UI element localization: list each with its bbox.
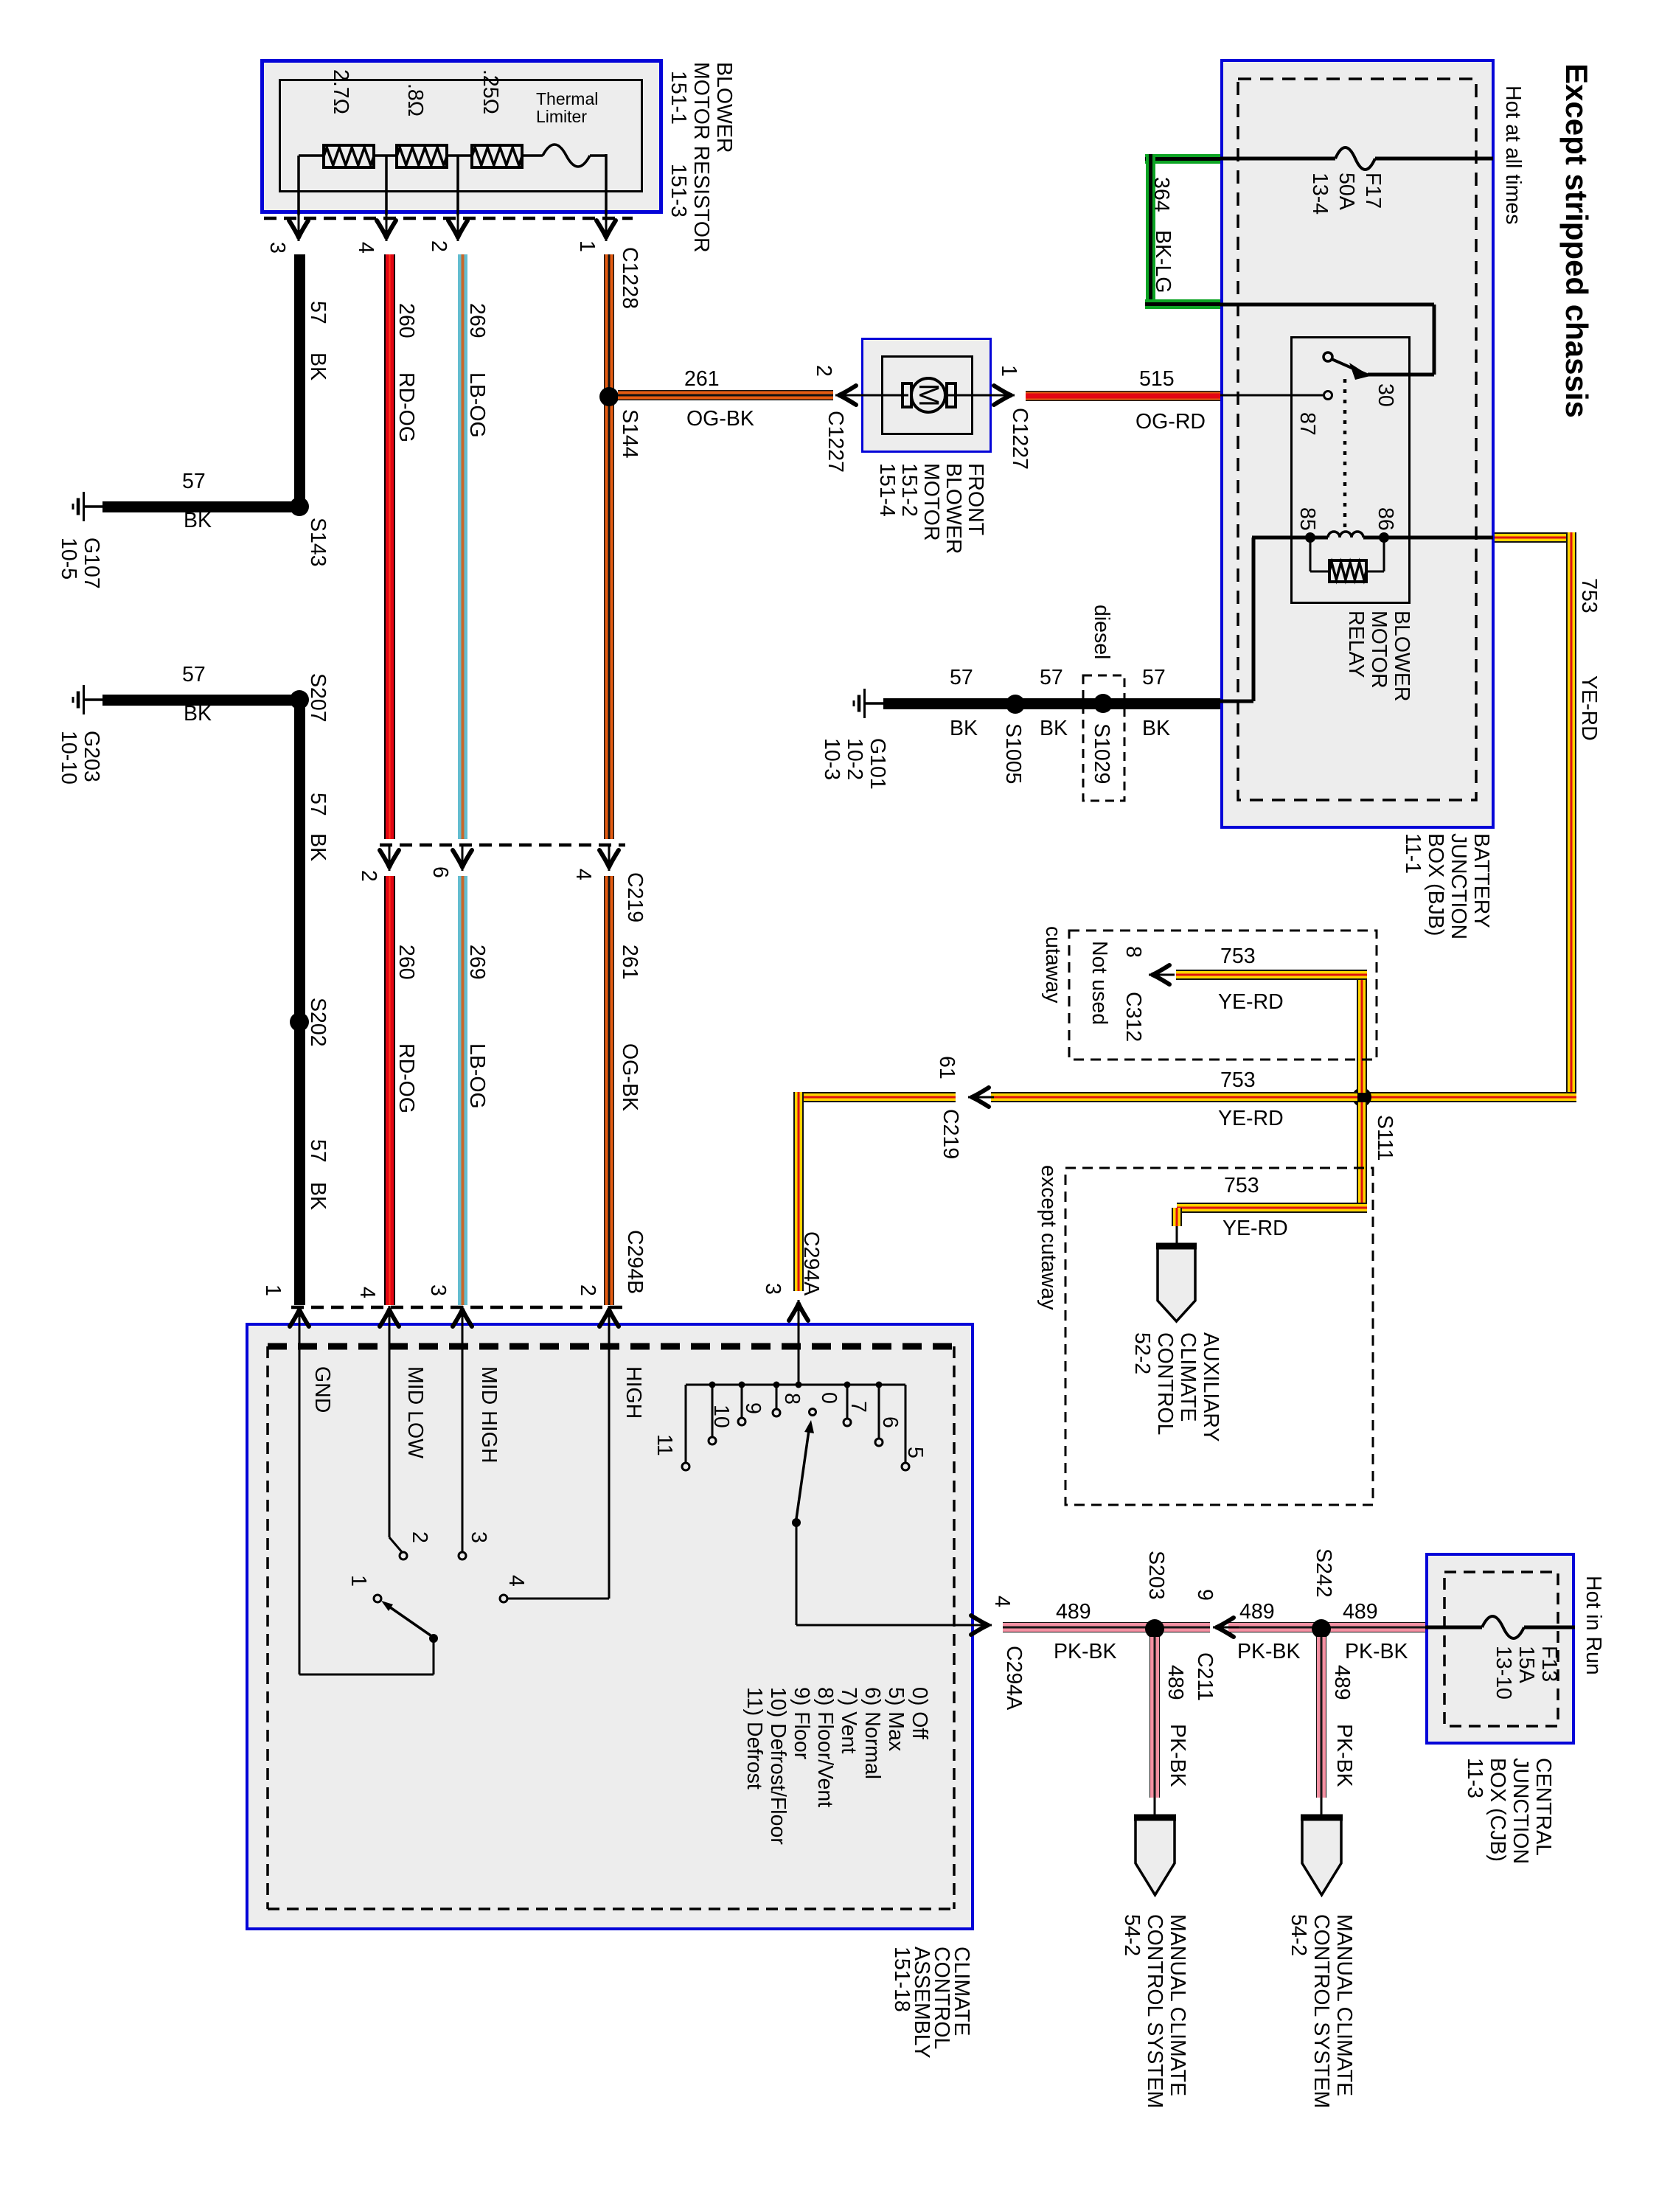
label diesel (1090, 605, 1113, 659)
pin 9 (1193, 1589, 1216, 1601)
label C294B (623, 1230, 646, 1294)
label A (1307, 1842, 1330, 1856)
fuse F17 50A (1335, 147, 1375, 170)
label 4 (504, 1575, 527, 1587)
label MID HIGH (477, 1366, 500, 1463)
label RD-OG (394, 1043, 417, 1113)
label 753 (1220, 1070, 1256, 1092)
pin 1 (997, 365, 1020, 377)
contact 6 (875, 1439, 883, 1446)
label GND (310, 1366, 333, 1413)
label 11 (653, 1434, 675, 1456)
wire (374, 154, 397, 157)
label 2 (408, 1531, 431, 1543)
contact 8 (773, 1409, 780, 1416)
label blower motor resistor (689, 62, 735, 253)
label G101 10-2 10-3 (820, 738, 888, 790)
label 364 (1150, 177, 1172, 212)
BJB inner dashed border (1238, 79, 1476, 800)
pin 3 (426, 1284, 449, 1296)
relay coil (1328, 532, 1363, 538)
label 57 (306, 793, 329, 816)
label BK (1040, 718, 1068, 740)
C1228 pin1 arrow (597, 215, 616, 241)
wire (102, 695, 294, 706)
wire (793, 1092, 804, 1291)
ground G203 (73, 685, 102, 714)
S1029 dashed box (1083, 675, 1124, 801)
switch stub (685, 1385, 687, 1463)
label manual climate control B (1120, 1914, 1189, 2108)
switch stub (846, 1385, 849, 1419)
label 7 (846, 1401, 869, 1413)
wire (433, 1641, 435, 1674)
wire (1321, 1798, 1323, 1816)
label BK (1142, 718, 1170, 740)
wire (1566, 532, 1576, 1097)
wire tap pin4 (385, 156, 388, 215)
label YE-RD (1218, 992, 1284, 1014)
label S143 (306, 518, 329, 567)
label PK-BK (1345, 1641, 1408, 1663)
wire (1368, 373, 1434, 377)
pin 3 (265, 242, 288, 254)
label 515 (1139, 369, 1175, 391)
label 489 (1330, 1665, 1353, 1700)
wire (804, 1092, 956, 1102)
climate control assembly box (246, 1323, 974, 1930)
label M (916, 383, 941, 407)
label OG-BK (686, 408, 754, 431)
contact 1 (374, 1595, 381, 1602)
switch stub (905, 1385, 907, 1463)
wire (1177, 1203, 1367, 1213)
wire tap pin1 (605, 154, 608, 215)
wire from fuse F13 (1524, 1626, 1575, 1630)
label S207 (306, 673, 329, 723)
pin 2 (427, 240, 450, 252)
wire (1176, 1226, 1178, 1246)
wire (447, 154, 472, 157)
C294A pin4 arrow (966, 1615, 992, 1635)
HIGH trace (608, 1326, 611, 1599)
label PK-BK (1237, 1641, 1301, 1663)
splice S202 (290, 1012, 309, 1032)
label S1029 (1090, 723, 1113, 784)
label PK-BK (1332, 1724, 1355, 1787)
wire (1228, 1622, 1425, 1632)
wire (1310, 538, 1312, 571)
label 57 (1142, 667, 1166, 689)
label central junction box (1463, 1758, 1554, 1864)
splice S111 (1352, 1088, 1371, 1107)
splice S242 (1312, 1619, 1331, 1638)
wire (1433, 305, 1436, 375)
thermal limiter element (543, 145, 590, 167)
C1227 pin1 arrow (989, 386, 1015, 405)
legend 9) Floor (790, 1687, 813, 1759)
wire (861, 394, 908, 397)
C294B pin4 arrow (380, 1306, 399, 1332)
label BK (306, 833, 329, 861)
contact 3 (459, 1552, 466, 1559)
splice S207 (290, 690, 309, 709)
legend 6) Normal (860, 1687, 883, 1779)
splice S143 (290, 497, 309, 516)
wire (1366, 571, 1384, 573)
wire (1026, 391, 1220, 401)
wire to relay 30 (1220, 303, 1434, 307)
legend 10) Defrost/Floor (766, 1687, 789, 1845)
label RD-OG (394, 372, 417, 442)
switch stub (776, 1385, 778, 1409)
label cutaway (1041, 926, 1064, 1004)
label 489 (1343, 1601, 1378, 1624)
C219 pin61 arrow (968, 1088, 994, 1107)
C219 pin2 arrow (380, 845, 399, 871)
contact 5 (902, 1463, 909, 1470)
label hot at all times (1501, 86, 1524, 224)
motor M1 symbol (902, 378, 956, 412)
wire (521, 154, 543, 157)
C294A pin3 arrow (789, 1300, 808, 1326)
label G203 10-10 (57, 731, 102, 785)
switch bus (686, 1384, 905, 1386)
ground G107 (73, 492, 102, 521)
C1228 pin3 arrow (289, 215, 308, 241)
connector B (1134, 1816, 1176, 1895)
label BK (306, 352, 329, 380)
label blower motor relay (1344, 611, 1413, 702)
label S242 (1312, 1548, 1335, 1598)
label F17 50A 13-4 (1307, 173, 1386, 215)
wire (1357, 975, 1367, 1093)
wire (1145, 154, 1220, 164)
switch blade (385, 1604, 431, 1635)
pin 4 (354, 242, 377, 254)
wire (1495, 532, 1571, 543)
switch post 2 (792, 1518, 801, 1527)
wire (1154, 1798, 1156, 1816)
C219 pin6 arrow (453, 845, 472, 871)
relay blade (1332, 359, 1368, 375)
C294B pin1 arrow (290, 1306, 309, 1332)
wire (604, 876, 614, 1305)
wire from fuse F17 (1375, 157, 1493, 161)
contact 10 (709, 1437, 716, 1444)
pin 4 (990, 1596, 1013, 1607)
blower motor resistor box (260, 59, 663, 214)
wire (590, 154, 606, 157)
wire (1357, 1102, 1367, 1211)
climate inner dashed top (268, 1343, 954, 1350)
wire (294, 254, 305, 507)
label 57 (306, 301, 329, 324)
wire to fuse F17 (1220, 157, 1335, 161)
label HIGH (622, 1366, 644, 1419)
contact 2 (400, 1552, 407, 1559)
connector A (1301, 1816, 1343, 1895)
wire (1310, 571, 1329, 573)
climate inner dashed left (266, 1346, 269, 1909)
pin 2 (357, 870, 380, 882)
blade arrowhead (381, 1601, 393, 1611)
GND trace (299, 1326, 301, 1674)
label 57 (1040, 667, 1063, 689)
wire (948, 394, 992, 397)
label BK-LG (1151, 230, 1174, 293)
C1227 pin2 arrow (835, 386, 861, 405)
pin 4 (355, 1287, 378, 1298)
label C312 (1121, 992, 1144, 1042)
relay pivot (1324, 352, 1332, 361)
splice S144 (599, 387, 619, 406)
label 489 (1164, 1665, 1186, 1700)
blade arrowhead (804, 1420, 814, 1433)
C1228 pin2 arrow (448, 215, 467, 241)
switch stub (878, 1385, 880, 1439)
label PK-BK (1166, 1724, 1189, 1787)
wire tap pin3 (297, 156, 300, 215)
wire into climate box (798, 1326, 800, 1385)
splice S203 (1145, 1619, 1164, 1638)
wire 85 out (1220, 700, 1253, 703)
label 30 (1374, 383, 1397, 407)
label 260 (394, 945, 417, 980)
wire (384, 254, 395, 839)
pin 3 (761, 1283, 784, 1295)
label C219 (939, 1109, 961, 1159)
resistor .8ohm (397, 145, 447, 167)
wire (1367, 1092, 1576, 1102)
label thermal limiter (536, 90, 598, 125)
label front blower motor (876, 463, 987, 554)
C294B pin2 arrow (599, 1306, 619, 1332)
fan switch blade (796, 1430, 809, 1519)
relay pin 87 (1324, 392, 1332, 400)
wire (294, 700, 305, 1305)
label 5 (903, 1447, 926, 1458)
wire (458, 254, 467, 839)
label MID LOW (403, 1366, 426, 1458)
contact 4 (500, 1595, 507, 1602)
label hot in run (1582, 1576, 1604, 1675)
label 151-1 (667, 71, 689, 125)
pin 6 (428, 866, 451, 878)
splice S1005 (1006, 695, 1025, 714)
label 57 (950, 667, 973, 689)
label G107 10-5 (57, 538, 102, 589)
label YE-RD (1222, 1218, 1288, 1240)
label 57 (182, 471, 206, 493)
fuse F13 15A (1482, 1616, 1524, 1638)
climate inner dashed bottom (268, 1907, 954, 1910)
label 86 (1374, 507, 1397, 531)
label except cutaway (1037, 1165, 1060, 1310)
label 261 (618, 945, 641, 980)
switch post (429, 1634, 438, 1643)
label 6 (878, 1416, 901, 1428)
pin 1 (575, 240, 598, 252)
pin 2 (576, 1284, 599, 1296)
label S1005 (1001, 723, 1024, 784)
wire (1146, 154, 1155, 308)
wire (618, 390, 833, 400)
wire resistor row (299, 154, 324, 157)
label manual climate control A (1287, 1914, 1355, 2108)
front blower motor box (861, 338, 992, 453)
legend 8) Floor/Vent (813, 1687, 836, 1807)
label LB-OG (465, 372, 488, 438)
relay resistor (1329, 560, 1366, 582)
label C294A (1002, 1646, 1025, 1710)
climate inner dashed right (953, 1346, 956, 1909)
wire 86 to YE-RD (1363, 536, 1493, 540)
connector C294B dashed line (291, 1306, 627, 1310)
contact 0 (810, 1409, 816, 1416)
contact 9 (738, 1418, 745, 1425)
resistor inner box (279, 79, 643, 192)
label B (1141, 1842, 1164, 1856)
battery junction box (1220, 59, 1495, 829)
C211 pin9 arrow (1213, 1618, 1239, 1637)
wire (604, 254, 614, 839)
label 261 (684, 369, 720, 391)
label S144 (618, 409, 641, 459)
label 269 (465, 945, 488, 980)
label S202 (306, 998, 329, 1047)
label 57 (182, 664, 206, 686)
resistor .25ohm (472, 145, 522, 167)
label OG-BK (618, 1043, 641, 1111)
wire (1150, 1637, 1160, 1798)
contact 11 (682, 1463, 689, 1470)
connector C1228 dashed line (264, 217, 633, 220)
relay 85 junction (1305, 532, 1315, 543)
wire (458, 876, 467, 1305)
MID LOW trace (389, 1326, 391, 1537)
wire to fuse F13 (1425, 1626, 1482, 1630)
C294B pin3 arrow (453, 1306, 472, 1332)
CJB inner dashed border (1444, 1572, 1558, 1726)
label 85 (1295, 507, 1318, 531)
label F13 15A 13-10 (1492, 1646, 1560, 1700)
label C1227 (824, 411, 846, 473)
label BK (950, 718, 978, 740)
label battery junction box (1401, 833, 1492, 939)
auxiliary climate control connector (1156, 1245, 1197, 1321)
wire (1383, 538, 1385, 571)
label 753 (1224, 1175, 1259, 1197)
label 0 (817, 1392, 840, 1404)
label C219 (623, 872, 646, 922)
label BK (184, 703, 212, 726)
label auxiliary climate control (1130, 1332, 1222, 1441)
label 151-3 (667, 164, 689, 218)
C219 pin4 arrow (599, 845, 619, 871)
wire 85 (1252, 536, 1328, 540)
label 8 (780, 1393, 803, 1405)
wire (1172, 1208, 1182, 1226)
label .8ohm (403, 83, 426, 116)
label 2.7ohm (329, 69, 352, 114)
label 269 (465, 303, 488, 338)
pin 61 (935, 1056, 958, 1079)
label BK (306, 1182, 329, 1210)
pin 2 (812, 365, 835, 377)
label .25ohm (479, 69, 501, 114)
label S203 (1144, 1551, 1167, 1600)
wire (883, 698, 1220, 709)
label climate control assembly (891, 1947, 971, 2059)
wire 85 down (1252, 538, 1256, 701)
label 489 (1239, 1601, 1275, 1624)
pin 1 (261, 1284, 284, 1296)
pin 8 (1121, 946, 1144, 958)
contact 7 (844, 1419, 851, 1426)
MID HIGH trace (462, 1326, 464, 1552)
relay actuator dotted line (1343, 379, 1347, 532)
label C1228 (618, 247, 641, 309)
switch stub (741, 1385, 743, 1418)
motor inner box (881, 355, 973, 435)
label BK (184, 510, 212, 532)
switch stub (712, 1385, 714, 1437)
label LB-OG (465, 1043, 488, 1109)
pin 4 (571, 869, 594, 880)
label not used (1088, 941, 1110, 1025)
wire 87 to C1227 (1220, 394, 1323, 397)
label PK-BK (1054, 1641, 1117, 1663)
label C294A (799, 1231, 822, 1295)
label 1 (347, 1575, 369, 1587)
label 87 (1295, 412, 1318, 436)
C312 pin8 arrow (1149, 965, 1175, 984)
connector C219 dashed line (380, 844, 625, 847)
wire (1003, 1622, 1210, 1632)
except cutaway dashed box (1065, 1168, 1373, 1505)
wire (796, 1524, 798, 1625)
wire (384, 876, 395, 1305)
label S111 (1373, 1115, 1396, 1161)
label C211 (1193, 1652, 1216, 1701)
label 3 (467, 1531, 490, 1543)
label YE-RD (1577, 675, 1600, 741)
legend 0) Off (908, 1687, 931, 1739)
resistor 2.7ohm (324, 145, 374, 167)
relay blade arrowhead (1349, 363, 1370, 380)
wire (1145, 299, 1220, 309)
label OG-RD (1135, 411, 1206, 434)
splice S1029 (1093, 694, 1113, 713)
label 9 (741, 1402, 764, 1414)
wire tap pin2 (456, 156, 459, 215)
label 57 (306, 1139, 329, 1163)
bus junction dots (709, 1382, 716, 1388)
blower motor relay box (1290, 336, 1411, 604)
wire (796, 1624, 981, 1627)
wire (1316, 1637, 1326, 1798)
not used dashed box (1069, 931, 1377, 1060)
label C1227 (1008, 408, 1031, 470)
legend 5) Max (884, 1687, 907, 1751)
legend 7) Vent (837, 1687, 860, 1753)
label 753 (1577, 578, 1600, 613)
C1228 pin4 arrow (377, 215, 396, 241)
wire (102, 501, 294, 512)
label YE-RD (1218, 1108, 1284, 1130)
relay 86 junction (1379, 532, 1389, 543)
